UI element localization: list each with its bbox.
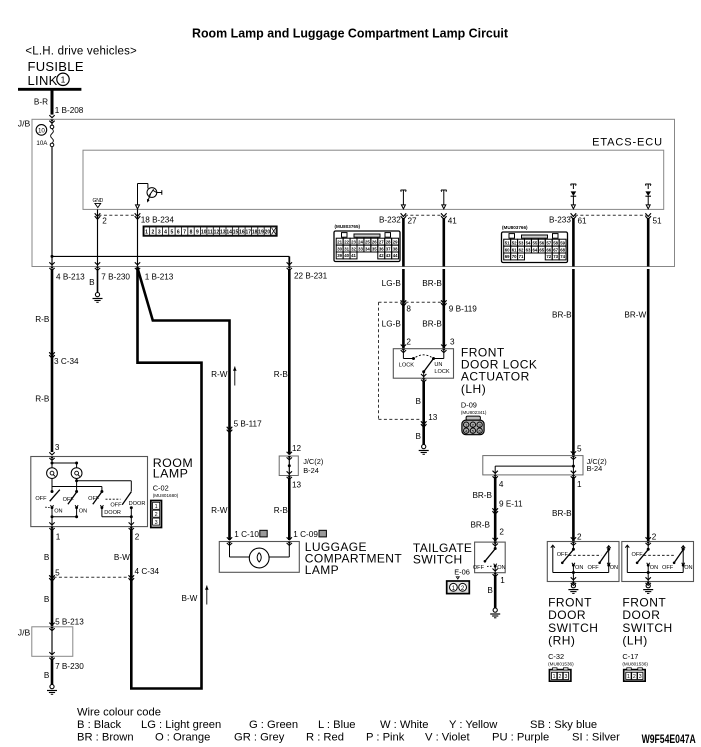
svg-text:21: 21 [337,239,342,244]
svg-text:55: 55 [532,240,537,245]
svg-text:B: B [89,278,95,287]
svg-text:O : Orange: O : Orange [155,732,210,744]
svg-text:63: 63 [526,247,531,252]
svg-text:1: 1 [627,674,630,680]
svg-text:74: 74 [560,254,565,259]
svg-text:44: 44 [393,253,398,258]
svg-text:(LH): (LH) [461,382,486,396]
svg-text:1 B-213: 1 B-213 [145,273,174,282]
svg-text:(LH): (LH) [622,634,647,648]
svg-text:R-W: R-W [211,370,228,379]
svg-text:5: 5 [171,230,174,236]
svg-text:56: 56 [539,240,544,245]
svg-text:ON: ON [54,508,62,514]
svg-text:LAMP: LAMP [305,563,339,577]
svg-text:67: 67 [553,247,558,252]
svg-text:37: 37 [386,246,391,251]
svg-text:68: 68 [560,247,565,252]
svg-text:57: 57 [546,240,551,245]
svg-text:39: 39 [337,253,342,258]
svg-text:OFF: OFF [63,497,75,503]
svg-text:7: 7 [183,230,186,236]
svg-text:2: 2 [406,337,411,346]
svg-text:18: 18 [252,230,258,236]
svg-text:7 B-230: 7 B-230 [101,273,130,282]
svg-text:SI : Silver: SI : Silver [572,732,620,744]
svg-text:OFF: OFF [110,502,122,508]
svg-text:9 E-11: 9 E-11 [499,500,523,509]
svg-text:ON: ON [79,508,87,514]
svg-text:B-W: B-W [181,594,197,603]
svg-text:OFF: OFF [662,565,674,571]
svg-text:LOCK: LOCK [434,369,450,375]
svg-text:6: 6 [177,230,180,236]
svg-text:13: 13 [428,413,438,422]
svg-text:31: 31 [344,246,349,251]
svg-text:2: 2 [499,527,504,536]
svg-text:12: 12 [292,444,302,453]
svg-text:64: 64 [532,247,537,252]
svg-text:2: 2 [577,532,582,541]
svg-text:J/B: J/B [18,627,31,637]
svg-text:34: 34 [365,246,370,251]
svg-text:38: 38 [393,246,398,251]
svg-text:41: 41 [351,253,356,258]
svg-text:BR-B: BR-B [472,491,492,500]
svg-text:1: 1 [145,230,148,236]
svg-text:5: 5 [577,445,582,454]
svg-text:OFF: OFF [88,496,100,502]
svg-text:1 C-09: 1 C-09 [293,530,318,539]
svg-text:R-B: R-B [274,506,289,515]
svg-text:3: 3 [564,674,567,680]
svg-text:13: 13 [292,480,302,489]
svg-text:2: 2 [155,512,158,518]
svg-text:28: 28 [386,239,391,244]
svg-text:65: 65 [539,247,544,252]
svg-text:27: 27 [379,239,384,244]
svg-text:(MU801536): (MU801536) [622,661,648,666]
svg-text:LAMP: LAMP [153,466,189,480]
svg-text:BR-B: BR-B [470,521,490,530]
svg-text:B : Black: B : Black [77,719,122,731]
svg-text:ON: ON [575,565,583,571]
svg-text:73: 73 [553,254,558,259]
svg-text:(RH): (RH) [548,634,575,648]
svg-text:35: 35 [372,246,377,251]
svg-text:71: 71 [519,254,524,259]
svg-text:2: 2 [135,532,140,541]
svg-text:FUSIBLE: FUSIBLE [28,59,84,74]
svg-text:58: 58 [553,240,558,245]
svg-text:72: 72 [546,254,551,259]
svg-text:BR : Brown: BR : Brown [77,732,134,744]
svg-text:1 C-10: 1 C-10 [234,530,259,539]
svg-text:R-B: R-B [35,315,50,324]
svg-text:23: 23 [351,239,356,244]
svg-text:10A: 10A [36,140,48,147]
svg-text:LINK: LINK [28,73,58,88]
svg-text:2: 2 [633,674,636,680]
svg-text:59: 59 [560,240,565,245]
svg-text:Y : Yellow: Y : Yellow [449,719,498,731]
svg-text:(MU803766): (MU803766) [502,225,528,230]
svg-text:51: 51 [505,240,510,245]
svg-text:8: 8 [406,305,411,314]
svg-text:4 B-213: 4 B-213 [56,273,85,282]
svg-text:Wire colour code: Wire colour code [77,706,161,718]
svg-text:ON: ON [610,565,618,571]
svg-text:69: 69 [505,254,510,259]
svg-text:B-W: B-W [114,553,130,562]
svg-text:BR-B: BR-B [422,279,442,288]
svg-text:62: 62 [519,247,524,252]
svg-text:J/B: J/B [18,118,31,128]
svg-text:B: B [416,397,422,406]
svg-text:C-02: C-02 [153,484,169,493]
svg-text:V : Violet: V : Violet [425,732,470,744]
svg-text:OFF: OFF [557,552,569,558]
svg-text:33: 33 [358,246,363,251]
svg-text:ETACS-ECU: ETACS-ECU [592,137,663,149]
svg-text:13: 13 [220,230,226,236]
svg-text:LG-B: LG-B [382,320,402,329]
svg-text:P : Pink: P : Pink [366,732,405,744]
svg-text:B-24: B-24 [587,464,603,473]
svg-text:1: 1 [577,480,582,489]
svg-text:BR-B: BR-B [422,320,442,329]
svg-text:B-R: B-R [34,97,48,106]
svg-text:E-06: E-06 [454,567,470,576]
svg-text:G : Green: G : Green [249,719,298,731]
svg-text:(MU801536): (MU801536) [548,661,574,666]
svg-text:15: 15 [233,230,239,236]
svg-text:54: 54 [526,240,531,245]
svg-text:9 B-119: 9 B-119 [449,305,478,314]
svg-text:4: 4 [164,230,167,236]
svg-text:UN: UN [434,362,442,368]
svg-text:5 B-117: 5 B-117 [234,419,263,428]
svg-text:R-B: R-B [35,394,50,403]
svg-text:DOOR: DOOR [104,510,121,516]
svg-text:B: B [487,586,493,595]
svg-text:OFF: OFF [35,496,47,502]
svg-text:W9F54E047A: W9F54E047A [642,732,696,746]
svg-text:17: 17 [245,230,251,236]
svg-text:25: 25 [365,239,370,244]
svg-text:14: 14 [226,230,232,236]
svg-text:DOOR: DOOR [129,501,146,507]
svg-text:66: 66 [546,247,551,252]
svg-text:2: 2 [652,532,657,541]
svg-text:B: B [44,553,50,562]
svg-text:BR-W: BR-W [624,310,646,319]
svg-text:20: 20 [265,230,271,236]
svg-text:OFF: OFF [473,565,485,571]
svg-text:OFF: OFF [632,552,644,558]
svg-text:LG : Light green: LG : Light green [141,719,221,731]
svg-text:(MU803765): (MU803765) [335,224,361,229]
svg-text:1: 1 [155,504,158,510]
svg-text:8: 8 [190,230,193,236]
svg-text:22: 22 [344,239,349,244]
svg-text:26: 26 [372,239,377,244]
svg-text:16: 16 [239,230,245,236]
svg-text:10: 10 [38,127,45,134]
svg-text:Room Lamp and Luggage Compartm: Room Lamp and Luggage Compartment Lamp C… [192,26,509,41]
svg-text:70: 70 [512,254,517,259]
svg-text:3 C-34: 3 C-34 [54,357,79,366]
svg-text:B-232: B-232 [379,216,401,225]
svg-text:4: 4 [499,480,504,489]
svg-text:11: 11 [207,230,213,236]
svg-text:61: 61 [578,217,588,226]
svg-text:60: 60 [505,247,510,252]
svg-text:53: 53 [519,240,524,245]
svg-text:SWITCH: SWITCH [413,553,463,567]
svg-text:(MU801680): (MU801680) [153,493,179,498]
svg-text:51: 51 [653,217,663,226]
svg-text:42: 42 [379,253,384,258]
svg-text:27: 27 [408,217,418,226]
svg-text:D-09: D-09 [461,400,477,409]
svg-text:OFF: OFF [588,565,600,571]
svg-text:<L.H. drive vehicles>: <L.H. drive vehicles> [25,46,137,58]
svg-text:C-32: C-32 [548,652,564,661]
svg-text:24: 24 [358,239,363,244]
svg-text:ON: ON [497,565,505,571]
svg-text:C-17: C-17 [622,652,638,661]
svg-text:1: 1 [56,532,61,541]
svg-text:30: 30 [337,246,342,251]
svg-text:LG-B: LG-B [382,279,402,288]
svg-text:43: 43 [386,253,391,258]
svg-text:32: 32 [351,246,356,251]
svg-text:SB : Sky blue: SB : Sky blue [530,719,597,731]
svg-text:R-B: R-B [274,370,289,379]
svg-text:2: 2 [559,674,562,680]
svg-text:29: 29 [393,239,398,244]
svg-text:7 B-230: 7 B-230 [55,662,84,671]
svg-text:L : Blue: L : Blue [318,719,356,731]
svg-text:ON: ON [684,565,692,571]
svg-text:BR-B: BR-B [552,509,572,518]
svg-text:2: 2 [151,230,154,236]
svg-text:9: 9 [196,230,199,236]
svg-text:18 B-234: 18 B-234 [141,216,175,225]
svg-text:22 B-231: 22 B-231 [294,271,328,280]
svg-text:3: 3 [450,337,455,346]
svg-text:PU : Purple: PU : Purple [492,732,549,744]
svg-text:19: 19 [258,230,264,236]
svg-text:1: 1 [500,576,505,585]
svg-text:B: B [44,595,50,604]
svg-text:3: 3 [639,674,642,680]
svg-text:12: 12 [214,230,220,236]
svg-text:BR-B: BR-B [552,310,572,319]
svg-text:GR : Grey: GR : Grey [234,732,285,744]
svg-text:1: 1 [553,674,556,680]
svg-text:40: 40 [344,253,349,258]
svg-text:3: 3 [155,520,158,526]
svg-text:61: 61 [512,247,517,252]
svg-text:3: 3 [158,230,161,236]
svg-text:B-24: B-24 [303,466,319,475]
svg-text:4 C-34: 4 C-34 [135,567,160,576]
svg-text:W : White: W : White [380,719,428,731]
svg-text:1: 1 [61,75,66,85]
svg-text:ON: ON [650,565,658,571]
svg-text:1 B-208: 1 B-208 [55,106,84,115]
svg-text:36: 36 [379,246,384,251]
svg-text:R-W: R-W [211,506,228,515]
svg-text:10: 10 [201,230,207,236]
svg-text:5 B-213: 5 B-213 [55,617,84,626]
svg-text:52: 52 [512,240,517,245]
svg-text:R : Red: R : Red [306,732,344,744]
svg-text:(MU802341): (MU802341) [461,410,487,415]
svg-text:LOCK: LOCK [399,363,415,369]
svg-text:B: B [416,432,422,441]
svg-text:B: B [44,671,50,680]
svg-text:B-233: B-233 [549,216,571,225]
svg-text:2: 2 [102,217,107,226]
svg-text:41: 41 [448,217,458,226]
svg-text:3: 3 [55,443,60,452]
svg-text:5: 5 [55,568,60,577]
